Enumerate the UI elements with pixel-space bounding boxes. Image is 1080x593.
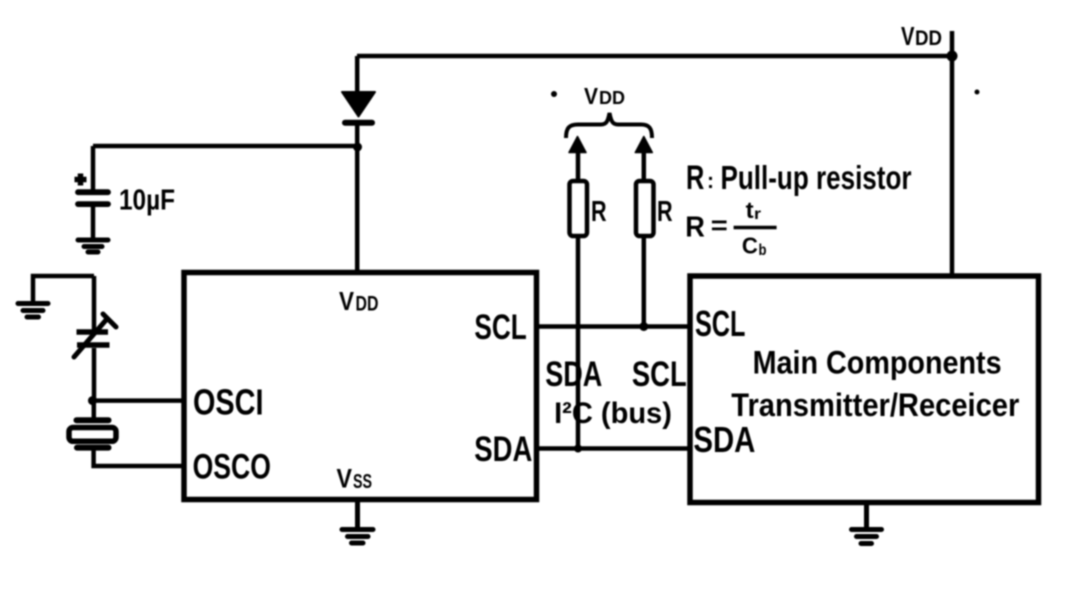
pin label VSS xyxy=(337,464,373,494)
pin label SDA right block xyxy=(693,419,755,460)
svg-text:V: V xyxy=(584,83,599,109)
IC block U1 xyxy=(184,273,537,500)
svg-text:DD: DD xyxy=(915,27,942,50)
svg-text:r: r xyxy=(754,206,761,223)
svg-text:R: R xyxy=(686,159,704,197)
node VDD junction xyxy=(947,51,958,62)
svg-text:C: C xyxy=(742,233,758,259)
wire left ground branch xyxy=(33,276,94,302)
wire SCL bus line xyxy=(535,324,690,329)
label VDD top right xyxy=(901,21,942,51)
label Cb denominator xyxy=(742,233,767,260)
svg-text:SDA: SDA xyxy=(693,419,755,460)
svg-text:Transmitter/Receicer: Transmitter/Receicer xyxy=(731,387,1019,423)
svg-text:Pull-up resistor: Pull-up resistor xyxy=(721,159,912,196)
wire node to crystal xyxy=(92,401,97,418)
label VDD mid xyxy=(584,83,625,109)
wire SDA bus line xyxy=(535,446,690,451)
svg-text:SCL: SCL xyxy=(695,303,745,344)
capacitor C1 plates xyxy=(78,192,108,204)
pin label OSCO xyxy=(193,447,271,486)
svg-text:SCL: SCL xyxy=(474,308,526,347)
label 10uF xyxy=(119,185,175,217)
wire OSCI pin xyxy=(94,398,184,403)
wire top VDD rail xyxy=(357,54,952,59)
pin label VDD xyxy=(339,286,379,316)
wire to trimmer xyxy=(92,276,97,331)
wire diode to block VDD pin xyxy=(355,124,360,272)
label SCL bus xyxy=(632,355,687,394)
arrow VDD scl xyxy=(635,137,652,153)
svg-text:SDA: SDA xyxy=(545,355,602,394)
wire SDA pull-up xyxy=(576,149,581,449)
wire capacitor rail xyxy=(93,144,357,149)
wire trimmer to OSCI node xyxy=(92,348,97,401)
svg-text:t: t xyxy=(746,197,754,223)
wire right ground stem xyxy=(864,502,869,529)
node capacitor rail junction xyxy=(353,143,362,152)
node OSCI junction xyxy=(88,396,97,405)
svg-text::: : xyxy=(707,168,714,193)
label I2C bus xyxy=(554,397,672,430)
svg-text:R: R xyxy=(657,196,673,228)
svg-text:=: = xyxy=(711,210,728,240)
wire SCL pull-up xyxy=(642,149,647,327)
fraction bar xyxy=(734,226,777,230)
label SDA bus xyxy=(545,355,602,394)
ground VSS xyxy=(342,530,373,544)
svg-text:DD: DD xyxy=(599,87,625,108)
ground capacitor xyxy=(78,240,108,252)
label R sda xyxy=(591,196,607,228)
node SDA junction xyxy=(574,445,582,453)
svg-text:OSCI: OSCI xyxy=(193,381,264,422)
wire VSS ground stem xyxy=(355,500,360,529)
wire capacitor bottom lead xyxy=(91,206,96,238)
label Main Components xyxy=(753,345,1002,381)
wire rail to diode xyxy=(355,56,360,93)
svg-text:R: R xyxy=(685,212,705,244)
ground right block xyxy=(852,530,882,544)
node SCL junction xyxy=(639,322,648,331)
speck right xyxy=(975,90,980,95)
trimmer capacitor CT xyxy=(74,314,116,357)
label R scl xyxy=(657,196,673,228)
pin label SCL left block xyxy=(474,308,526,347)
brace VDD xyxy=(566,113,652,138)
svg-text:SS: SS xyxy=(353,471,372,493)
svg-text:OSCO: OSCO xyxy=(193,447,271,486)
svg-text:V: V xyxy=(337,464,353,494)
resistor R sda xyxy=(570,181,588,236)
svg-text:SCL: SCL xyxy=(632,355,687,394)
svg-text:10µF: 10µF xyxy=(119,185,175,217)
svg-text:b: b xyxy=(759,242,767,259)
polarity plus sign xyxy=(75,174,87,186)
wire OSCO pin xyxy=(94,450,184,466)
crystal Y1 xyxy=(69,420,116,447)
svg-text:SDA: SDA xyxy=(474,430,532,469)
resistor R scl xyxy=(636,181,654,236)
label R pull-up resistor xyxy=(686,159,912,197)
svg-text:V: V xyxy=(339,286,355,316)
svg-text:R: R xyxy=(591,196,607,228)
pin label OSCI xyxy=(193,381,264,422)
pin label SDA left block xyxy=(474,430,532,469)
svg-text:V: V xyxy=(901,21,915,51)
pin label SCL right block xyxy=(695,303,745,344)
svg-text:I²C (bus): I²C (bus) xyxy=(554,397,672,430)
svg-text:Main Components: Main Components xyxy=(753,345,1002,381)
wire VDD stub vertical xyxy=(950,31,955,277)
ground left xyxy=(18,304,48,318)
label R equals xyxy=(685,210,728,244)
diode D1 xyxy=(342,92,375,123)
arrow VDD sda xyxy=(569,137,586,153)
speck left xyxy=(551,91,557,97)
label Transmitter/Receicer xyxy=(731,387,1019,423)
IC block U2 main components xyxy=(690,276,1039,503)
wire capacitor top lead xyxy=(91,146,96,190)
label tr numerator xyxy=(746,197,761,223)
svg-text:DD: DD xyxy=(356,293,379,316)
